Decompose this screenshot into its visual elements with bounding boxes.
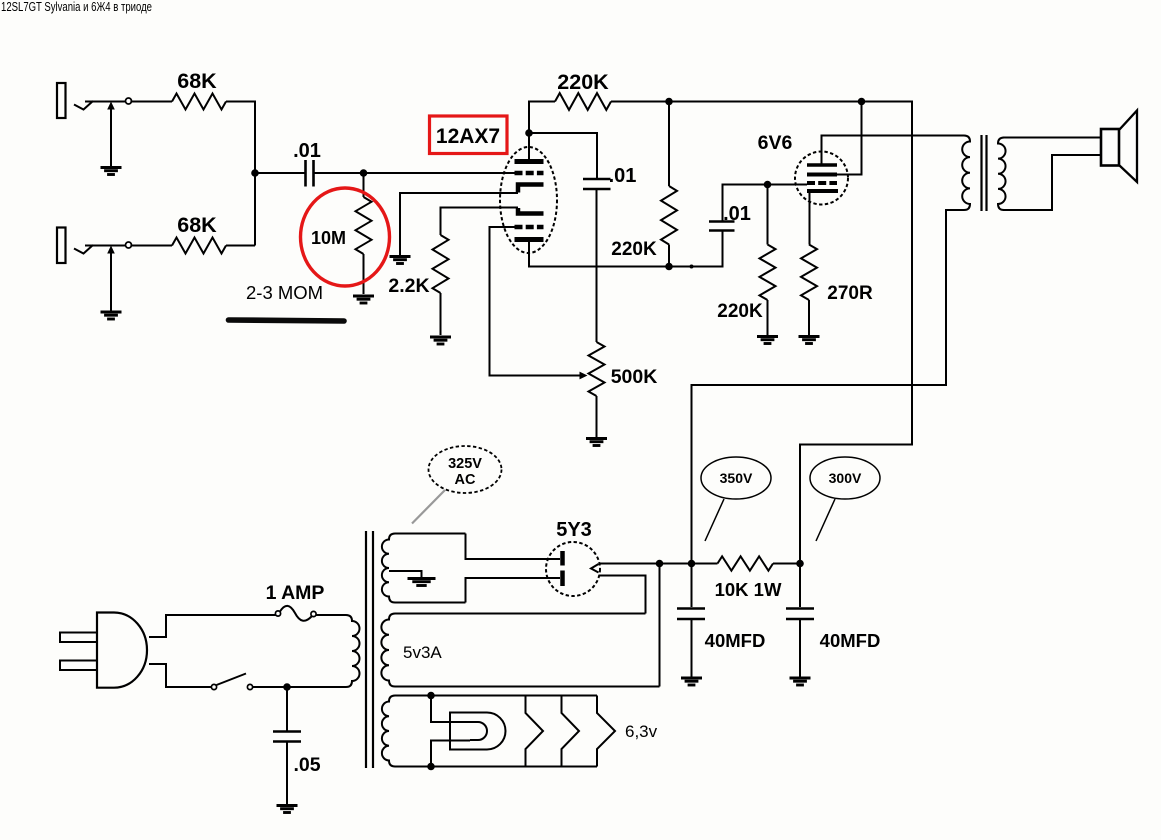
node rectifier out (656, 560, 664, 568)
heater tap chevron 2 (562, 696, 580, 767)
resistor 10K 1W (718, 556, 774, 570)
svg-text:.05: .05 (293, 754, 320, 776)
OT primary winding (962, 136, 970, 210)
wire plate1 to C2 (529, 133, 597, 178)
wire B+ rail top (611, 102, 912, 564)
500K wiper arrow (580, 372, 588, 380)
svg-text:350V: 350V (720, 470, 753, 486)
node heater top (427, 692, 435, 700)
ground .05 (277, 804, 298, 807)
potentiometer 500K (589, 342, 605, 396)
capacitor 40MFD first (677, 607, 705, 610)
ground cathode 1 (390, 255, 411, 258)
capacitor 40MFD second (786, 607, 814, 610)
wire HV top to 5Y3 plate (466, 534, 561, 560)
svg-text:.01: .01 (723, 203, 751, 225)
wire C 40MFD 2 to ground (799, 620, 801, 677)
12AX7 grid 1 (dashed) (515, 171, 544, 176)
PT 5v winding (381, 614, 659, 687)
input jack J1 tip contact (74, 101, 93, 110)
PT core (365, 531, 367, 768)
wire plug bottom to switch (149, 664, 212, 687)
wire C1 to grid (315, 172, 518, 174)
svg-text:325V: 325V (448, 456, 482, 472)
12AX7 plate 1 (515, 159, 544, 164)
wire fuse to transformer (316, 614, 346, 616)
svg-text:40MFD: 40MFD (705, 630, 766, 651)
svg-text:6V6: 6V6 (758, 132, 793, 154)
tube V3 5Y3 envelope (546, 542, 600, 596)
resistor 10M (356, 173, 372, 294)
6V6 cathode (807, 189, 838, 193)
ground jack J1 (101, 166, 122, 169)
5Y3 plate 2 bar (560, 571, 565, 587)
svg-text:10K 1W: 10K 1W (715, 579, 782, 600)
svg-text:10M: 10M (311, 228, 346, 248)
resistor 68K bottom (172, 238, 226, 254)
node heater bottom (427, 763, 435, 771)
svg-text:220K: 220K (557, 70, 609, 94)
red circle annotation (301, 188, 390, 286)
capacitor .05 (273, 730, 301, 733)
node 300V (796, 560, 804, 568)
wire 5Y3 cathode out (600, 563, 718, 565)
input jack J1 body (57, 83, 66, 118)
wire 6V6 plate to OT (822, 136, 965, 164)
resistor 270R (801, 245, 817, 301)
marker underline (229, 320, 345, 321)
wire terminal to R 68K bottom (130, 245, 172, 247)
5Y3 filament (591, 564, 599, 573)
wire 5Y3 filament to 5v winding (599, 576, 646, 614)
node 220K top junction (665, 98, 673, 106)
capacitor C3 .01 (709, 220, 735, 223)
heater tap chevron 1 (526, 696, 544, 767)
svg-text:500K: 500K (611, 366, 658, 388)
pointer 350V (705, 499, 724, 541)
wire node to C1 (255, 172, 305, 174)
svg-text:5Y3: 5Y3 (556, 519, 592, 541)
fuse 1 AMP (275, 611, 280, 616)
OT secondary winding (998, 138, 1006, 210)
svg-text:270R: 270R (827, 283, 873, 304)
wire jack1 to terminal (85, 101, 126, 103)
ground jack J2 (101, 311, 122, 314)
ground 2.2K (430, 336, 451, 339)
svg-text:12SL7GT Sylvania и 6Ж4 в триод: 12SL7GT Sylvania и 6Ж4 в триоде (1, 0, 152, 14)
wire C2 to 500K (596, 190, 598, 343)
pilot lamp envelope (450, 713, 506, 750)
jack J2 terminal circle (126, 242, 132, 248)
wire plate1 up to B+ (529, 102, 555, 134)
svg-text:6,3v: 6,3v (625, 722, 658, 741)
OT core (980, 135, 982, 211)
node 350V (688, 560, 696, 568)
pointer 325V (412, 490, 445, 524)
mains plug prongs (60, 633, 97, 643)
speaker LS1 (1101, 129, 1119, 166)
wire plug top to fuse (149, 615, 276, 637)
wire C .05 to ground (286, 742, 288, 804)
svg-text:.01: .01 (609, 165, 637, 187)
ground 40MFD first (681, 677, 702, 680)
balloon 300V (810, 457, 880, 499)
svg-text:.01: .01 (293, 140, 321, 162)
tube V2 6V6 envelope (795, 152, 848, 205)
heater tap chevron 3 (597, 696, 615, 767)
balloon 325V AC (429, 446, 502, 493)
jack J1 ground contact arrow (110, 108, 112, 167)
12AX7 cathode 2 (518, 208, 544, 214)
node switch junction (283, 683, 291, 691)
capacitor C2 .01 (583, 178, 611, 181)
mains plug body (97, 613, 147, 688)
wire terminal to R 68K (130, 101, 172, 103)
wire switch to node (253, 686, 347, 688)
svg-text:68K: 68K (177, 213, 217, 237)
wire screen to B+ (837, 102, 862, 175)
PT HV secondary winding 325V (382, 534, 466, 603)
wire 500K to ground (596, 396, 598, 437)
wire 10K to 300V node (773, 563, 800, 565)
svg-text:5v3A: 5v3A (403, 643, 442, 662)
capacitor C1 .01 coupling (304, 160, 307, 187)
tube U1 12AX7 envelope (500, 147, 557, 253)
power switch (211, 684, 216, 689)
wire OT primary bottom to B+ node (692, 210, 965, 564)
wire 2.2K to ground (440, 293, 442, 335)
node screen junction (858, 98, 866, 106)
12AX7 cathode 1 (518, 185, 544, 193)
balloon 350V (701, 457, 771, 499)
node input junction (251, 169, 259, 177)
resistor 220K interstage (661, 102, 677, 267)
PT primary winding (346, 615, 360, 687)
6V6 control grid (dashed) (807, 181, 837, 185)
6V6 screen grid (807, 173, 837, 177)
svg-text:12AX7: 12AX7 (436, 125, 500, 148)
ground 40MFD second (790, 677, 811, 680)
ground 500K (586, 437, 607, 440)
wire 6V6 cathode to 270R (809, 193, 811, 245)
red box 12AX7 (430, 116, 508, 154)
wire 350V node to C 40MFD (691, 564, 693, 608)
svg-text:40MFD: 40MFD (820, 630, 881, 651)
12AX7 plate 2 (515, 237, 544, 242)
resistor 2.2K (433, 235, 449, 293)
pointer 300V (816, 499, 835, 541)
node plate1 junction (525, 129, 533, 137)
wire OT secondary top to speaker (1003, 137, 1101, 139)
svg-text:300V: 300V (829, 470, 862, 486)
ground 220K 6V6 (757, 335, 778, 338)
jack J1 terminal circle (126, 98, 132, 104)
svg-text:AC: AC (455, 472, 476, 488)
wire jack2 to terminal (85, 245, 126, 247)
wire plate2 output (529, 231, 723, 267)
resistor 68K top (172, 94, 226, 110)
wire C3 to 6V6 grid (723, 185, 808, 222)
PT center tap to ground (389, 571, 422, 577)
input jack J2 body (57, 228, 66, 264)
jack J2 ground contact arrow (110, 252, 112, 312)
resistor 220K 6V6 grid (760, 185, 776, 336)
wire 5v bottom up to rail (659, 564, 661, 687)
node 6V6 grid junction (764, 181, 772, 189)
input jack J2 tip contact (74, 245, 93, 254)
ground 10M (353, 295, 374, 298)
ground center tap (408, 577, 436, 580)
wire grid2 to 500K wiper (490, 227, 581, 376)
svg-text:1 AMP: 1 AMP (266, 582, 325, 604)
12AX7 grid 2 (dashed) (515, 225, 544, 230)
PT heater winding 6.3v (382, 696, 597, 767)
svg-text:220K: 220K (611, 239, 657, 260)
svg-text:2.2K: 2.2K (388, 275, 429, 297)
node plate2 junction (665, 263, 673, 271)
svg-text:220K: 220K (717, 301, 763, 322)
ground 270R (799, 335, 820, 338)
wire 68K top to node, down to jack2 branch (226, 102, 255, 246)
small node tick (690, 265, 694, 269)
svg-text:68K: 68K (177, 69, 217, 93)
5Y3 plate 1 bar (560, 551, 565, 566)
node 10M junction (360, 169, 368, 177)
wire HV bottom to 5Y3 plate (466, 578, 561, 603)
wire cathode2 to 2.2K (441, 208, 519, 236)
wire cathode1 to ground (400, 193, 518, 255)
wire 270R to ground (808, 300, 810, 335)
wire 300V node to C 40MFD 2 (799, 564, 801, 608)
wire node to C .05 (286, 687, 288, 731)
6V6 plate (807, 163, 837, 166)
svg-text:2-3 MOM: 2-3 MOM (246, 282, 323, 303)
wire OT secondary bottom to speaker (1003, 155, 1101, 210)
wire C 40MFD to ground (691, 620, 693, 677)
pilot lamp filament (431, 696, 487, 767)
resistor 220K plate load (555, 93, 611, 110)
